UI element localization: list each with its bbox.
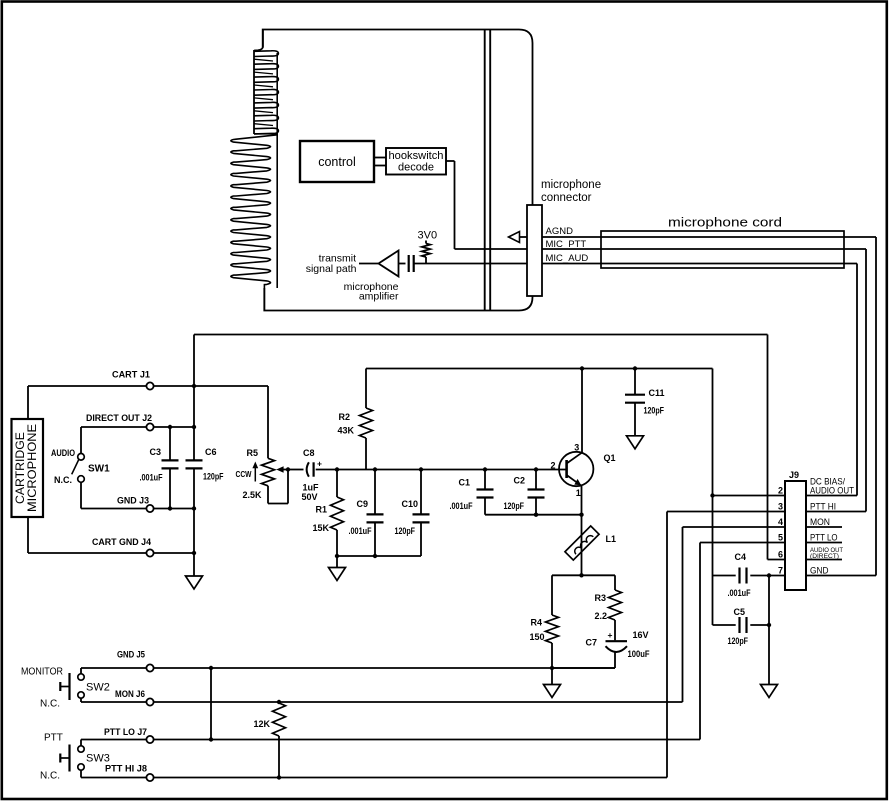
ground below J4	[186, 576, 203, 589]
svg-text:C9: C9	[357, 499, 369, 509]
microphone connector bar	[527, 179, 601, 296]
svg-text:1: 1	[576, 488, 581, 498]
svg-text:50V: 50V	[302, 492, 318, 502]
connector J1 CART	[112, 370, 154, 390]
svg-text:C3: C3	[150, 447, 162, 457]
microphone cord box	[601, 216, 844, 269]
wire MIC_AUD to cord	[542, 264, 857, 496]
wire: control to hookswitch links	[374, 158, 386, 166]
svg-text:C1: C1	[459, 478, 471, 488]
wire: R4/C7 ground bus	[552, 667, 615, 669]
capacitor C5	[713, 607, 772, 646]
svg-text:MON: MON	[810, 517, 830, 527]
wire: R5 wiper to C8	[286, 467, 304, 471]
svg-text:2.2: 2.2	[595, 611, 608, 621]
wire: J4 right to ground column	[154, 551, 197, 555]
svg-text:CART GND J4: CART GND J4	[92, 537, 151, 547]
svg-text:C6: C6	[205, 447, 217, 457]
wire: PTT HI J8 line to J9 pin 3	[81, 512, 667, 778]
capacitor C9	[349, 470, 384, 557]
transistor Q1	[551, 443, 616, 498]
connector J8 PTT HI	[105, 764, 154, 782]
wire: J2 left to SW1	[81, 427, 146, 453]
wire: amplifier output to transmit signal path	[359, 263, 378, 265]
capacitor C11	[625, 366, 665, 436]
svg-text:MICROPHONE: MICROPHONE	[27, 424, 39, 512]
J9 pin 3 PTT HI	[667, 501, 866, 511]
connector J6 MON	[115, 689, 154, 706]
svg-text:.001uF: .001uF	[728, 588, 751, 598]
svg-text:CCW: CCW	[236, 469, 253, 479]
wire: R1/C9/C10 ground bus	[335, 554, 421, 558]
radio body outline	[263, 30, 533, 311]
wire: SW1 to J3	[81, 482, 146, 508]
svg-text:3V0: 3V0	[418, 230, 438, 242]
svg-text:100uF: 100uF	[628, 649, 650, 659]
capacitor C10	[395, 470, 430, 557]
svg-text:150: 150	[530, 632, 545, 642]
svg-text:3: 3	[574, 443, 579, 453]
capacitor C6	[186, 335, 224, 577]
svg-text:CARTRIDGE: CARTRIDGE	[15, 432, 27, 504]
J9 pin 4 MON	[683, 517, 843, 527]
wire: Q1 collector to rail	[580, 366, 584, 452]
svg-text:5: 5	[778, 533, 783, 543]
svg-text:+: +	[317, 459, 322, 469]
svg-text:microphone cord: microphone cord	[668, 216, 782, 230]
svg-text:C4: C4	[735, 552, 747, 562]
svg-text:16V: 16V	[633, 630, 649, 640]
svg-text:PTT LO: PTT LO	[810, 533, 838, 543]
inductor coil wide (bottom section of coil)	[231, 134, 277, 310]
wire: MIC_AUD inside radio	[414, 263, 527, 265]
svg-text:PTT: PTT	[44, 733, 63, 744]
cartridge microphone	[12, 419, 44, 517]
node: transmit signal path label	[306, 253, 357, 275]
svg-text:signal path: signal path	[306, 263, 357, 275]
connector J3 GND	[117, 496, 154, 513]
J9 pin 7 GND	[750, 565, 876, 575]
switch SW1	[51, 448, 110, 485]
capacitor C1	[450, 470, 494, 515]
control block	[300, 141, 374, 182]
capacitor C7 (polarized)	[586, 630, 650, 668]
switch SW3 PTT	[40, 733, 110, 782]
svg-text:MONITOR: MONITOR	[21, 667, 63, 678]
svg-text:.001uF: .001uF	[140, 473, 163, 483]
svg-text:connector: connector	[541, 192, 592, 204]
svg-text:7: 7	[778, 566, 783, 576]
svg-text:J9: J9	[789, 470, 799, 480]
svg-text:hookswitch: hookswitch	[389, 150, 444, 162]
svg-text:R1: R1	[316, 505, 328, 515]
svg-text:GND: GND	[810, 565, 829, 575]
svg-text:CART J1: CART J1	[112, 370, 150, 380]
svg-text:R5: R5	[247, 448, 259, 458]
J9 pin 2 DC BIAS/AUDIO OUT	[710, 477, 857, 498]
op-amp microphone amplifier	[344, 251, 399, 303]
wire: emitter degeneration top bus	[552, 574, 615, 576]
capacitor C2	[504, 470, 545, 515]
resistor 3V0 pullup	[418, 230, 438, 264]
connector J9	[785, 470, 806, 590]
resistor R2	[338, 369, 373, 470]
wire: mic to CART GND J4	[28, 517, 146, 553]
svg-text:.001uF: .001uF	[349, 526, 372, 536]
wire: main audio line (C8 to Q1 base)	[316, 467, 567, 471]
ground below C11	[627, 436, 644, 449]
inductor L1 (ferrite choke)	[565, 526, 616, 560]
svg-text:L1: L1	[606, 534, 617, 544]
wire: J2 right to C3/C6	[154, 425, 197, 429]
svg-text:120pF: 120pF	[203, 472, 224, 482]
wire: J5 to J7 link	[210, 668, 212, 740]
svg-text:15K: 15K	[313, 523, 330, 533]
svg-text:Q1: Q1	[604, 453, 616, 463]
wire: C1/C2 bottoms to emitter	[485, 513, 584, 517]
svg-text:C10: C10	[402, 499, 419, 509]
svg-text:2: 2	[778, 486, 783, 496]
svg-text:SW2: SW2	[86, 682, 110, 694]
switch SW2 MONITOR	[21, 667, 110, 710]
connector J5 GND	[117, 650, 154, 672]
svg-text:.001uF: .001uF	[450, 501, 473, 511]
resistor R4	[530, 575, 559, 668]
ground below R4	[544, 666, 561, 698]
wire: J1 to R5 top	[154, 386, 268, 458]
svg-text:6: 6	[778, 550, 783, 560]
svg-text:PTT HI: PTT HI	[810, 501, 836, 511]
svg-text:R2: R2	[339, 412, 351, 422]
wire: top link line (direct out net to J9 pin 6)	[194, 335, 768, 560]
svg-text:N.C.: N.C.	[54, 475, 72, 485]
svg-text:AGND: AGND	[546, 226, 574, 237]
wire MIC_PTT to cord	[542, 249, 866, 512]
svg-text:(DIRECT): (DIRECT)	[810, 553, 839, 560]
svg-text:AUDIO: AUDIO	[51, 448, 75, 458]
wire: handset separation double line	[485, 30, 491, 311]
svg-text:GND J3: GND J3	[117, 496, 149, 506]
J9 pin 5 PTT LO	[700, 533, 842, 543]
capacitor coupling (mic amp input)	[399, 255, 414, 272]
svg-text:decode: decode	[398, 162, 434, 174]
node AGND	[546, 226, 574, 237]
ground below R1	[329, 556, 346, 581]
potentiometer R5	[236, 448, 289, 504]
resistor R1	[313, 470, 344, 557]
svg-text:C7: C7	[586, 638, 598, 648]
junction J1/C6 column	[192, 384, 196, 388]
svg-text:C2: C2	[514, 476, 526, 486]
wire: bias rail (R2 top to J9 pin 2)	[366, 369, 713, 626]
connector J2 DIRECT OUT	[86, 413, 154, 431]
svg-text:control: control	[318, 155, 356, 169]
svg-text:1uF: 1uF	[303, 483, 320, 493]
svg-text:SW1: SW1	[88, 464, 110, 475]
wire: mic to CART J1	[28, 386, 146, 419]
inductor coil narrow (top section of coil)	[254, 30, 278, 135]
svg-text:DIRECT OUT J2: DIRECT OUT J2	[86, 413, 152, 423]
svg-text:12K: 12K	[254, 719, 271, 729]
connector J7 PTT LO	[104, 727, 154, 743]
wire: L1 to R3/R4 node	[579, 528, 583, 578]
svg-text:C8: C8	[303, 448, 315, 458]
hookswitch decode block	[386, 148, 446, 175]
svg-text:R4: R4	[531, 618, 543, 628]
capacitor C4	[713, 552, 772, 598]
svg-text:C11: C11	[649, 388, 665, 398]
resistor 12K	[254, 700, 286, 780]
svg-text:microphone: microphone	[541, 179, 601, 191]
wire: GND J5 line	[81, 666, 615, 670]
svg-text:GND J5: GND J5	[117, 650, 145, 660]
svg-text:2.5K: 2.5K	[243, 490, 262, 500]
svg-text:R3: R3	[595, 593, 607, 603]
svg-text:120pF: 120pF	[395, 526, 416, 536]
svg-text:N.C.: N.C.	[40, 699, 60, 710]
wire: J3 right	[154, 506, 197, 510]
svg-text:3: 3	[778, 502, 783, 512]
wire: hookswitch decode to MIC_PTT	[446, 161, 527, 249]
svg-text:120pF: 120pF	[644, 406, 665, 416]
wire: Q1 emitter down	[581, 486, 583, 528]
wire: MON J6 line to J9 pin 4	[81, 527, 683, 702]
svg-text:PTT HI J8: PTT HI J8	[105, 764, 147, 774]
wire: PTT LO J7 line to J9 pin 5	[81, 543, 700, 742]
svg-text:4: 4	[778, 517, 783, 527]
resistor R3	[595, 575, 622, 640]
svg-text:MON J6: MON J6	[115, 689, 145, 699]
J9 pin 6 AUDIO OUT (DIRECT)	[768, 547, 844, 560]
capacitor C8 (polarized)	[302, 448, 323, 502]
svg-text:+: +	[608, 630, 613, 640]
capacitor C3	[140, 427, 179, 509]
svg-text:MIC_AUD: MIC_AUD	[546, 253, 589, 264]
node MIC_PTT	[546, 239, 587, 250]
svg-text:PTT LO J7: PTT LO J7	[104, 727, 147, 737]
svg-text:120pF: 120pF	[504, 501, 525, 511]
wire: C4/C5 to ground	[768, 576, 770, 685]
connector J4 CART GND	[92, 537, 154, 557]
AGND arrow into radio	[509, 232, 528, 243]
node MIC_AUD	[546, 253, 589, 264]
wire AGND to cord	[542, 237, 876, 576]
svg-text:43K: 43K	[338, 426, 355, 436]
svg-text:N.C.: N.C.	[40, 771, 60, 782]
svg-text:2: 2	[551, 460, 556, 470]
svg-text:amplifier: amplifier	[359, 290, 399, 302]
ground below C5	[761, 685, 778, 698]
svg-text:AUDIO OUT: AUDIO OUT	[810, 485, 854, 495]
svg-text:C5: C5	[734, 607, 746, 617]
svg-text:120pF: 120pF	[728, 636, 749, 646]
